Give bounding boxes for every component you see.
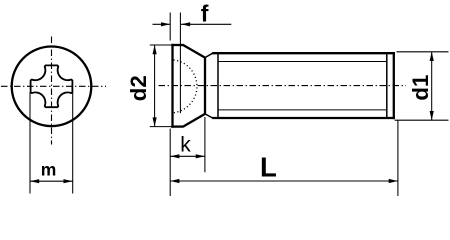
svg-text:k: k [180, 134, 191, 157]
node center-line horizontal (top view) [1, 85, 106, 87]
wire d2 dimension line [154, 45, 156, 127]
head outline circle (top view) [12, 47, 92, 127]
wire L dimension line [170, 180, 398, 182]
wire L extension right [397, 120, 399, 196]
wire thread minor top [218, 61, 387, 63]
wire head-shank junction [204, 57, 206, 114]
wire recess side line / f extension right [179, 13, 181, 114]
wire head face [171, 44, 173, 128]
svg-text:m: m [41, 159, 57, 179]
wire d2 extension top [150, 44, 172, 46]
svg-text:f: f [201, 0, 209, 26]
wire k dimension line [170, 155, 205, 157]
d2 dimension arrows [153, 45, 157, 54]
wire m extension right [72, 92, 74, 193]
wire d1 extension bottom [395, 119, 449, 121]
svg-text:d2: d2 [126, 75, 151, 101]
wire f leader left [153, 23, 171, 25]
wire d1 dimension line [431, 52, 433, 120]
wire thread major bottom [212, 117, 395, 119]
wire head bottom edge [171, 125, 183, 127]
wire cone edge bottom [183, 114, 205, 127]
wire d1 extension top [397, 51, 449, 53]
recess arc (hidden detail) [174, 60, 197, 113]
node center-line (side view) [159, 85, 407, 87]
wire thread minor bottom [218, 109, 387, 111]
k dimension arrows [170, 154, 179, 158]
wire thread runout top [205, 53, 213, 57]
wire thread start [217, 53, 219, 118]
wire tip chamfer [386, 54, 388, 117]
L dimension arrows [170, 179, 179, 183]
wire k/L extension left [169, 129, 171, 196]
wire cone edge top [183, 45, 205, 58]
svg-text:L: L [260, 152, 277, 183]
f dimension arrows [161, 22, 170, 26]
wire d2 extension bottom [150, 126, 172, 128]
wire f leader right [181, 23, 231, 25]
wire thread runout bottom [205, 114, 213, 118]
wire m dimension line [30, 180, 73, 182]
d1 dimension arrows [430, 52, 434, 61]
wire m extension left [29, 92, 31, 193]
wire k extension right [204, 117, 206, 172]
wire head top edge [171, 44, 183, 46]
phillips recess (top view) [31, 65, 73, 107]
wire tip end face [393, 52, 395, 119]
wire f extension left [169, 13, 171, 41]
svg-text:d1: d1 [408, 75, 433, 101]
node center-line vertical (top view) [51, 37, 53, 145]
m dimension arrows [30, 179, 39, 183]
wire thread major top [212, 52, 395, 54]
